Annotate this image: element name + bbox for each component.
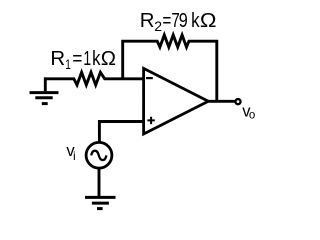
svg-text:o: o bbox=[249, 109, 255, 121]
svg-text:Ω: Ω bbox=[101, 48, 116, 70]
svg-text:1: 1 bbox=[65, 56, 71, 72]
svg-text:k: k bbox=[191, 10, 200, 32]
svg-text:9: 9 bbox=[179, 10, 188, 32]
svg-text:i: i bbox=[73, 149, 76, 163]
svg-text:R: R bbox=[50, 48, 65, 70]
svg-text:=: = bbox=[72, 48, 82, 70]
svg-text:Ω: Ω bbox=[200, 10, 217, 32]
svg-text:=: = bbox=[162, 10, 171, 32]
svg-text:R: R bbox=[140, 10, 155, 32]
svg-text:1: 1 bbox=[83, 48, 91, 70]
svg-text:2: 2 bbox=[154, 18, 162, 34]
